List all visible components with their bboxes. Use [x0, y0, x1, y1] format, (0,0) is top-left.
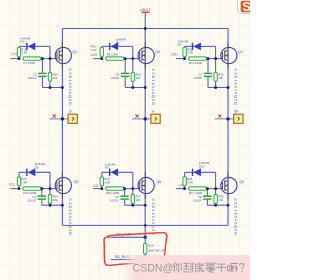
svg-text:C8: C8: [198, 195, 202, 199]
svg-text:CSD18540Q5B: CSD18540Q5B: [68, 199, 72, 236]
svg-text:CSD18540Q5B: CSD18540Q5B: [234, 69, 238, 106]
svg-text:R9 120R: R9 120R: [107, 53, 118, 57]
wire: VBAT top bus: [62, 28, 228, 30]
svg-text:3.3R: 3.3R: [187, 51, 193, 55]
resistor R23 120R (gate series): [106, 187, 124, 195]
resistor R18 3.3R (series with D7): [183, 46, 193, 58]
wire: bottom return bus: [62, 224, 228, 226]
transistor Q6 CSD18540Q5B N-MOSFET: [138, 172, 154, 199]
transistor Q2 CSD18540Q5B N-MOSFET: [221, 42, 237, 69]
svg-text:102/1P: 102/1P: [27, 199, 36, 203]
svg-text:CSDN@: CSDN@: [133, 262, 174, 274]
svg-text:102/1P: 102/1P: [111, 76, 120, 80]
svg-text:S: S: [242, 0, 250, 14]
resistor R10 5mR 3W 1% (current shunt): [144, 237, 165, 259]
junction: port U on phase wire: [61, 117, 64, 120]
watermark pink band: [122, 256, 250, 280]
resistor R21 10k (gate-source): [214, 59, 224, 88]
svg-text:D10: D10: [199, 164, 205, 168]
wire: gate-drive input net U3H: [176, 58, 185, 60]
resistor R17 120R (gate series): [189, 187, 207, 195]
diode D7 1N4148: [178, 39, 216, 50]
svg-text:CSD18540Q5B: CSD18540Q5B: [151, 69, 155, 106]
resistor R14 10k (gate-source): [48, 189, 58, 206]
resistor R13 120R (gate series): [23, 187, 41, 195]
svg-text:CSD18540Q5B: CSD18540Q5B: [68, 69, 72, 106]
wire: gate network return to source: [125, 204, 146, 206]
junction: shunt top: [144, 236, 147, 239]
diode D8 1N4148: [19, 162, 50, 176]
svg-text:V: V: [152, 109, 155, 114]
svg-text:5mR 3W 1%: 5mR 3W 1%: [148, 248, 165, 252]
resistor R15 3.3R (series with D5): [17, 46, 27, 58]
resistor R16 3.3R (series with D6): [91, 45, 104, 59]
wire: stub to port V: [132, 118, 145, 120]
junction: port W on phase wire: [226, 117, 229, 120]
capacitor C6 102/1P (gate-source): [110, 189, 129, 206]
svg-text:10k: 10k: [136, 76, 141, 80]
wire: diode D5 to gate node: [49, 46, 51, 58]
wire: diode D6 to gate node: [132, 46, 134, 58]
wire: gate network return to source: [42, 87, 62, 89]
port V (off-sheet connector): [151, 109, 160, 124]
svg-text:10k: 10k: [53, 198, 58, 202]
junction dots at gate node of Q4: [100, 57, 146, 89]
svg-text:10k: 10k: [136, 198, 141, 202]
wire: bus to shunt: [144, 225, 146, 237]
diode D6 1N4148: [102, 37, 133, 50]
svg-text:Q6: Q6: [157, 180, 162, 184]
svg-text:10k: 10k: [218, 198, 223, 202]
svg-text:3.3R: 3.3R: [91, 48, 97, 52]
wire: stub to port U: [49, 118, 62, 120]
svg-text:C7: C7: [198, 72, 202, 76]
svg-text:U3H: U3H: [171, 53, 178, 57]
wire: gate network return to source: [208, 87, 228, 89]
wire: diode D9 to gate node: [132, 172, 134, 188]
junction dots at gate node of Q1: [18, 57, 64, 89]
resistor R28 3.3R (series with D10): [183, 172, 193, 188]
resistor R20 10k (gate-source): [131, 59, 141, 88]
svg-text:Q3: Q3: [74, 180, 79, 184]
resistor R27 10k (gate-source): [131, 189, 141, 206]
wire: gate network return to source: [125, 87, 145, 89]
svg-text:Q1: Q1: [72, 50, 77, 54]
svg-text:C6: C6: [115, 195, 119, 199]
wire: diode D10 to gate node: [215, 172, 217, 188]
transistor Q4 CSD18540Q5B N-MOSFET: [138, 42, 154, 69]
svg-text:D5: D5: [20, 40, 24, 44]
svg-text:C5: C5: [116, 72, 120, 76]
svg-text:C4: C4: [32, 195, 36, 199]
resistor R12 3.3R (series with D9): [100, 172, 110, 188]
svg-text:R11 120R: R11 120R: [189, 61, 202, 65]
svg-text:CSD18540Q5B: CSD18540Q5B: [234, 199, 238, 236]
svg-text:D6: D6: [116, 41, 120, 45]
svg-text:102/1P: 102/1P: [110, 199, 119, 203]
svg-text:3.3R: 3.3R: [21, 180, 27, 184]
wire: gate-drive input net U2L: [93, 188, 102, 190]
svg-text:U2H: U2H: [91, 53, 98, 57]
svg-text:D9: D9: [105, 166, 109, 170]
power port VBAT: [140, 7, 151, 29]
wire: gate-drive input net U2H: [93, 58, 102, 60]
junction dots at gate node of Q6: [100, 187, 146, 206]
red annotation box around shunt: [104, 233, 167, 266]
svg-text:D7: D7: [178, 43, 182, 47]
wire: gate: [207, 58, 223, 60]
wire: diode D7 to gate node: [215, 46, 217, 58]
wire: 5V_BUS- net: [111, 255, 146, 260]
svg-text:10k: 10k: [218, 76, 223, 80]
svg-text:VBAT: VBAT: [140, 7, 151, 12]
junction: shunt bottom: [144, 258, 147, 261]
no-ERC marker at port U: [53, 114, 56, 117]
svg-text:U1L: U1L: [9, 183, 15, 187]
wire: gate: [207, 188, 223, 190]
wire: phase U (high-side source to low-side drain): [61, 64, 63, 178]
wire: gate-drive input net U3L: [176, 188, 185, 190]
resistor R11 120R (gate series): [189, 57, 207, 65]
wire: gate: [41, 188, 57, 190]
svg-text:R10: R10: [148, 244, 154, 248]
schematic sheet background: [0, 0, 250, 280]
svg-text:102/1P: 102/1P: [28, 76, 37, 80]
capacitor C7 102/1P (gate-source): [193, 59, 212, 88]
wire: phase V (high-side source to low-side drain): [144, 64, 146, 178]
resistor R30 10k (gate-source): [214, 189, 224, 206]
junction dots at gate node of Q5: [183, 187, 229, 206]
svg-text:U: U: [69, 109, 72, 114]
svg-text:10k: 10k: [53, 76, 58, 80]
capacitor C2 102/1P (gate-source): [28, 59, 47, 88]
junction: port V on phase wire: [144, 117, 147, 120]
wire: diode D8 to gate node: [49, 172, 51, 188]
svg-text:C2: C2: [33, 72, 37, 76]
svg-text:Q5: Q5: [240, 180, 245, 184]
transistor Q1 CSD18540Q5B N-MOSFET: [55, 42, 71, 69]
svg-text:102/1P: 102/1P: [193, 199, 202, 203]
diode D10 1N4148: [185, 161, 216, 176]
no-ERC marker at port W: [218, 114, 221, 117]
wire: gate network return to source: [207, 204, 228, 206]
wire: phase W (high-side source to low-side drain): [227, 64, 229, 178]
junction: shunt tap on bottom bus: [144, 224, 147, 227]
wire: gate-drive input net U1H: [10, 58, 19, 60]
watermark text CSDN@...: [133, 262, 244, 274]
svg-text:3.3R: 3.3R: [21, 51, 27, 55]
svg-text:Q2: Q2: [238, 50, 243, 54]
wire: stub to port W: [215, 118, 228, 120]
svg-text:U2L: U2L: [93, 184, 99, 188]
browser badge icon (orange S): [238, 0, 254, 14]
wire: gate network return to source: [42, 204, 63, 206]
svg-text:102/1P: 102/1P: [193, 76, 202, 80]
wire: 5V_BUS+ net: [111, 233, 146, 238]
wire: gate: [41, 58, 57, 60]
svg-text:D8: D8: [35, 166, 39, 170]
capacitor C5 102/1P (gate-source): [111, 59, 130, 88]
svg-text:W: W: [234, 109, 238, 114]
transistor Q5 CSD18540Q5B N-MOSFET: [221, 172, 237, 199]
svg-text:R7 120R: R7 120R: [23, 61, 34, 65]
wire: gate: [124, 188, 140, 190]
transistor Q3 CSD18540Q5B N-MOSFET: [55, 172, 71, 199]
svg-text:3.3R: 3.3R: [104, 180, 110, 184]
resistor R7 120R (gate series): [23, 57, 41, 65]
junction: VBAT on bus: [144, 27, 147, 30]
svg-text:CSD18540Q5B: CSD18540Q5B: [151, 199, 155, 236]
diode D5 1N4148: [19, 36, 50, 50]
svg-text:Q4: Q4: [155, 50, 160, 54]
capacitor C4 102/1P (gate-source): [27, 189, 46, 206]
junction dots at gate node of Q2: [183, 57, 229, 89]
svg-text:3.3R: 3.3R: [187, 180, 193, 184]
wire: gate: [124, 58, 140, 60]
resistor R26 3.3R (series with D8): [17, 172, 27, 188]
capacitor C8 102/1P (gate-source): [193, 189, 212, 206]
port W (off-sheet connector): [234, 109, 243, 124]
junction dots at gate node of Q3: [18, 187, 64, 206]
resistor R19 10k (gate-source): [48, 59, 58, 88]
wire: gate-drive input net U1L: [10, 188, 19, 190]
resistor R9 120R (gate series): [106, 53, 124, 61]
port U (off-sheet connector): [68, 109, 77, 124]
diode D9 1N4148: [102, 162, 133, 176]
no-ERC marker at port V: [135, 114, 138, 117]
